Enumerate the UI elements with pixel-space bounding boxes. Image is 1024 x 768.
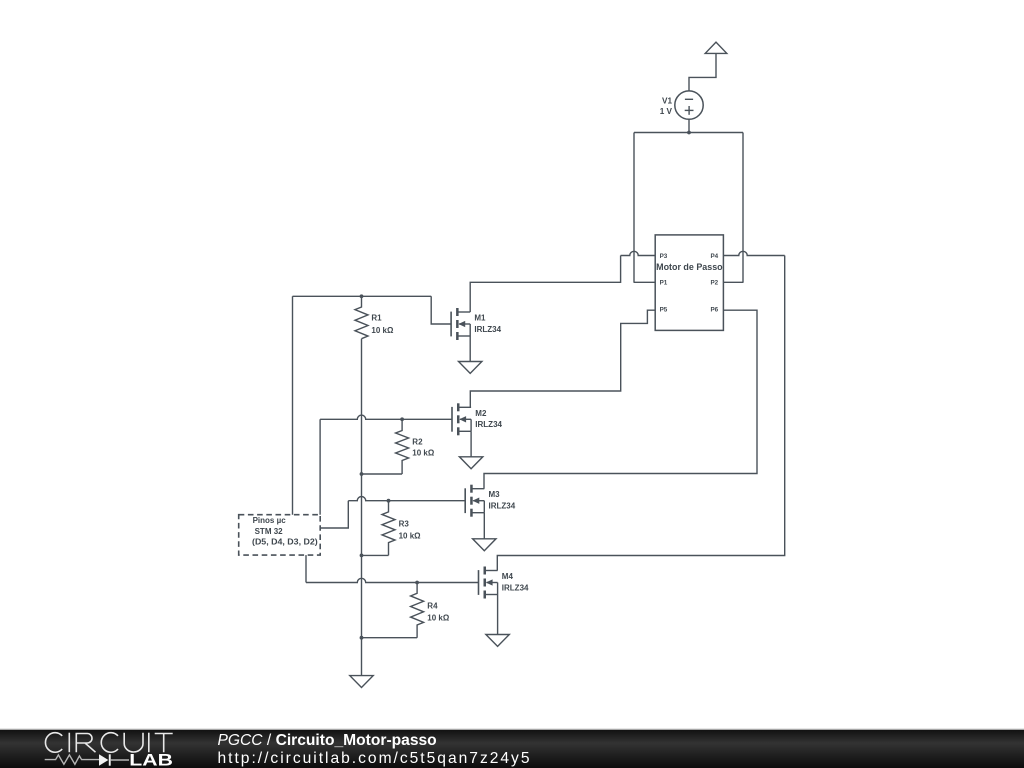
ground GND M1 <box>459 362 482 374</box>
svg-text:M2: M2 <box>475 409 487 418</box>
junction dot R1 top <box>360 294 364 298</box>
svg-text:R1: R1 <box>371 314 382 323</box>
wire left drop to P1 <box>633 133 635 283</box>
wire VCC to V1 plus jog <box>689 53 716 91</box>
wire R2 bottom to bus <box>362 473 403 475</box>
ground GND M2 <box>459 457 482 469</box>
svg-text:STM 32: STM 32 <box>255 527 284 536</box>
junction dot R3 bottom bus <box>360 554 364 558</box>
wire riser D5 from dashed box <box>292 296 294 514</box>
wire D2 net to M4 gate <box>305 555 307 582</box>
motor box Motor de Passo <box>655 235 723 331</box>
transistor M4 <box>478 570 480 595</box>
wire P2 stub <box>723 281 743 283</box>
transistor M3 <box>464 488 466 513</box>
wire M4 source to ground <box>497 595 499 635</box>
junction dot R4 top <box>415 581 419 585</box>
svg-text:10 kΩ: 10 kΩ <box>427 613 450 622</box>
wire right drop to P2 <box>742 133 744 283</box>
ground GND M3 <box>473 539 496 551</box>
svg-text:PGCC / Circuito_Motor-passo: PGCC / Circuito_Motor-passo <box>218 732 437 749</box>
svg-text:P3: P3 <box>660 253 668 260</box>
resistor R4 <box>411 583 424 638</box>
wire D3 net to M3 gate <box>320 501 348 528</box>
power flag VCC (up triangle) <box>705 42 727 53</box>
wire M2 source to ground <box>470 431 472 457</box>
ground GND M4 <box>486 635 509 647</box>
svg-text:P4: P4 <box>710 253 718 260</box>
wire P1 stub <box>634 281 655 283</box>
svg-text:1 V: 1 V <box>660 107 673 116</box>
svg-text:10 kΩ: 10 kΩ <box>371 326 394 335</box>
svg-text:IRLZ34: IRLZ34 <box>474 325 501 334</box>
svg-text:LAB: LAB <box>129 751 173 768</box>
svg-text:IRLZ34: IRLZ34 <box>502 583 529 592</box>
svg-text:R3: R3 <box>399 520 410 529</box>
transistor M1 <box>450 312 452 337</box>
logo resistor squiggle <box>45 755 99 764</box>
transistor M2 <box>451 407 453 432</box>
svg-text:Pinos µc: Pinos µc <box>253 516 287 525</box>
svg-text:P2: P2 <box>710 279 718 286</box>
svg-text:P5: P5 <box>660 307 668 314</box>
dashed box Pinos uc STM32 <box>239 515 321 555</box>
V1 minus sign <box>685 98 693 100</box>
logo diode <box>99 754 108 765</box>
logo CIRCUIT (thin strokes) <box>45 733 172 753</box>
wire top rail <box>634 132 743 134</box>
junction dot R3 top <box>387 499 391 503</box>
junction dot R4 bottom bus <box>360 636 364 640</box>
svg-text:(D5, D4, D3, D2): (D5, D4, D3, D2) <box>252 538 318 547</box>
resistor R3 <box>382 501 395 556</box>
svg-text:M4: M4 <box>502 572 514 581</box>
junction dot R2 top <box>400 417 404 421</box>
svg-text:IRLZ34: IRLZ34 <box>475 420 502 429</box>
svg-text:R2: R2 <box>412 438 423 447</box>
wire P5 to M2 drain <box>470 310 655 407</box>
resistor R2 <box>396 419 409 474</box>
svg-text:M3: M3 <box>489 490 501 499</box>
svg-text:http://circuitlab.com/c5t5qan7: http://circuitlab.com/c5t5qan7z24y5 <box>218 750 530 767</box>
wire R3 bottom to bus <box>362 554 389 556</box>
svg-text:V1: V1 <box>662 96 672 105</box>
wire P6 to M3 drain <box>484 310 757 489</box>
wire R4 bottom to bus <box>362 637 418 639</box>
wire ground bus <box>361 339 363 676</box>
svg-text:Motor de Passo: Motor de Passo <box>656 262 723 273</box>
V1 plus sign <box>685 109 694 111</box>
svg-text:P6: P6 <box>710 307 718 314</box>
wire P4 to M4 drain <box>723 251 784 255</box>
voltage source V1 <box>675 91 703 119</box>
wire V1 bottom lead <box>688 119 690 132</box>
svg-text:10 kΩ: 10 kΩ <box>412 448 435 457</box>
junction dot R2 bottom bus <box>360 472 364 476</box>
ground GND bus <box>350 676 373 688</box>
svg-text:R4: R4 <box>427 601 438 610</box>
resistor R1 <box>355 296 368 338</box>
footer banner <box>0 729 1024 730</box>
svg-text:P1: P1 <box>660 279 668 286</box>
svg-text:IRLZ34: IRLZ34 <box>489 502 516 511</box>
wire D5 net to M1 gate <box>293 295 432 297</box>
wire riser D4 from dashed box <box>319 419 321 514</box>
wire M1 source to ground <box>469 336 471 362</box>
wire M3 source to ground <box>483 513 485 539</box>
svg-text:M1: M1 <box>474 314 486 323</box>
wire P3 to M1 drain <box>621 251 656 255</box>
junction dot V1 rail <box>687 131 691 135</box>
svg-text:10 kΩ: 10 kΩ <box>399 531 422 540</box>
wire D4 net to M2 gate <box>320 415 452 419</box>
